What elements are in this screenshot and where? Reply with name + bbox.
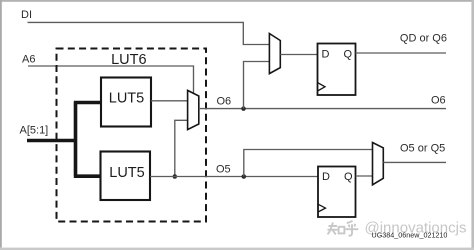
LUT6 dashed boundary box: [57, 49, 207, 222]
frame top: [0, 0, 474, 2]
wire FF2 Q to mux U3 lower input: [356, 175, 373, 177]
svg-text:O5 or Q5: O5 or Q5: [400, 143, 445, 155]
junction on O5 at mux U3 branch: [242, 174, 247, 179]
frame right: [471, 0, 474, 250]
LUT5 lower box: [101, 152, 151, 201]
svg-text:A[5:1]: A[5:1]: [20, 125, 49, 137]
watermark glyph 知: [328, 223, 345, 235]
wire O5 or Q5 output to right edge: [383, 161, 446, 163]
frame bottom band: [0, 248, 474, 250]
svg-text:A6: A6: [22, 54, 35, 66]
wire DI net: from DI stub right then down into mux U1 upper input: [28, 22, 270, 44]
svg-text:D: D: [322, 171, 330, 183]
FF2 clock triangle: [318, 204, 326, 212]
wire O5 branch up to mux U2 input 1: [175, 120, 188, 176]
svg-text:LUT6: LUT6: [111, 52, 146, 68]
wire O6 net: mux U2 output to right edge: [199, 108, 446, 110]
svg-text:O5: O5: [216, 164, 231, 176]
watermark glyph 乎: [346, 221, 359, 236]
svg-text:LUT5: LUT5: [109, 91, 144, 107]
svg-text:Q: Q: [344, 49, 353, 61]
wire O6 feedback branch up to mux U1 lower input: [244, 62, 270, 109]
junction on O5 at mux U2 branch: [173, 174, 178, 179]
frame left: [0, 0, 2, 248]
FF1 clock triangle: [318, 83, 326, 91]
svg-text:O6: O6: [217, 96, 232, 108]
svg-text:Q: Q: [344, 171, 353, 183]
mux U1 (FF1 D-input mux: DI or O6): [269, 34, 280, 74]
wire O5 branch up and over to mux U3 upper input: [244, 150, 373, 177]
flip-flop FF1 box: [318, 44, 356, 96]
wire O5 net: lower LUT5 output to FF2 D pin: [150, 176, 318, 178]
mux U3 (output mux: O5 or Q5): [373, 143, 384, 185]
mux U2 (LUT6 output mux, select A6): [188, 90, 199, 129]
LUT5 upper box: [101, 78, 151, 127]
wire mux U1 output to FF1 D pin: [280, 54, 317, 56]
svg-text:DI: DI: [21, 9, 32, 21]
flip-flop FF2 box: [318, 167, 356, 218]
svg-text:QD or Q6: QD or Q6: [400, 32, 447, 44]
junction on O6 feedback branch: [241, 106, 246, 111]
bus A[5:1]: thick input bus with trunk and branches to both LUT5 inputs: [27, 103, 102, 177]
svg-text:LUT5: LUT5: [109, 165, 144, 181]
wire QD or Q6 output: FF1 Q to right edge: [356, 52, 447, 54]
svg-text:D: D: [322, 49, 330, 61]
svg-text:O6: O6: [431, 95, 446, 107]
wire upper LUT5 output to mux U2 input 0: [151, 100, 188, 102]
wire A6 net: to select pin of mux U2: [28, 66, 194, 95]
svg-text:UG384_06new_021210: UG384_06new_021210: [372, 230, 448, 239]
